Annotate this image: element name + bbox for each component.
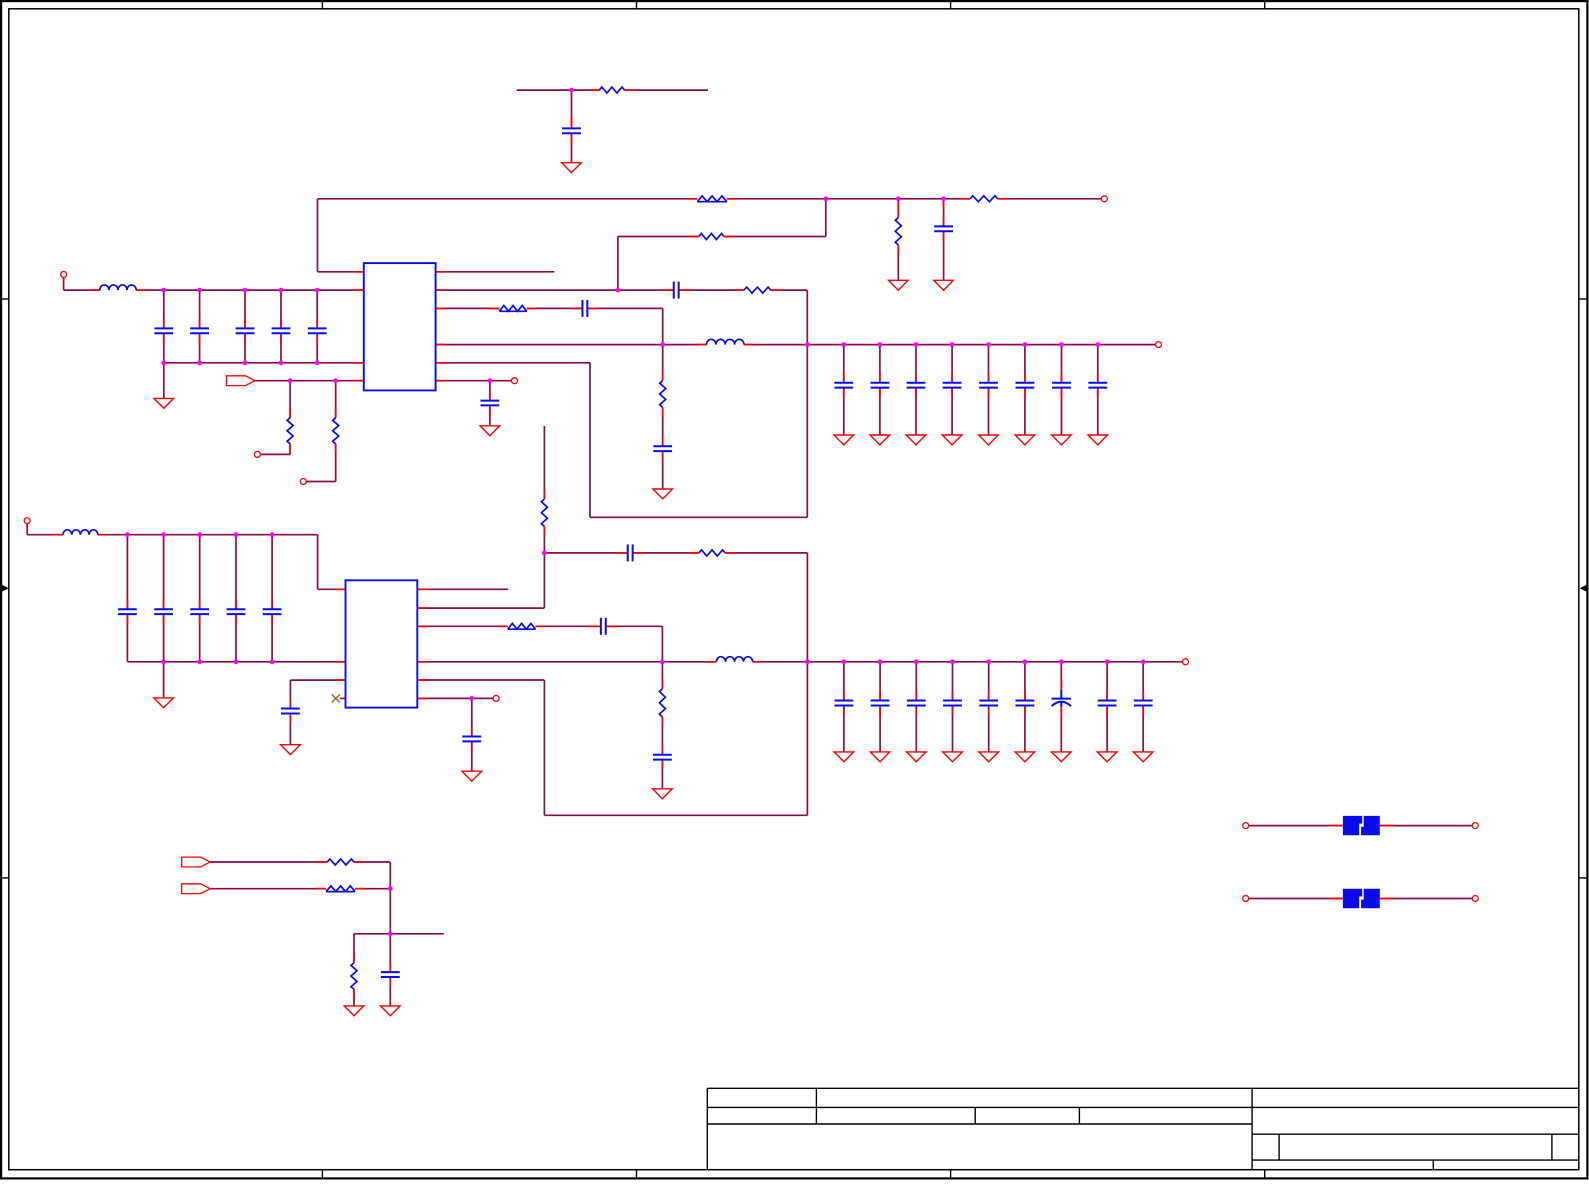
wire [951,345,953,435]
wire [318,588,346,590]
ground [870,752,890,762]
wire [318,198,1102,200]
wire [317,199,319,272]
wire [843,662,845,752]
wire [1106,662,1108,752]
capacitor C27 [590,618,617,635]
resistor R15 [318,859,364,865]
capacitor C29 [462,727,481,751]
ground [889,280,909,290]
wire [543,553,545,608]
ground [979,435,999,445]
resistor R3 [961,196,1008,202]
wire [662,345,664,489]
wire [843,345,845,435]
capacitor C12 [834,373,853,397]
resistor R4 [689,234,733,240]
capacitor C35 [1016,691,1035,715]
wire [64,289,364,291]
ground [943,752,963,762]
capacitor C8 [481,391,500,415]
resistor R8 [735,287,781,293]
junction [950,342,955,347]
capacitor C39 [381,963,400,987]
wire [163,662,165,698]
wire [63,277,65,290]
junction [1059,342,1064,347]
wire [199,535,201,662]
wire [418,607,545,609]
wire [354,933,444,935]
wire [436,344,1156,346]
inductor L1 [91,285,145,290]
no-connect X [332,694,340,702]
input port [182,857,210,867]
capacitor C38 [1134,691,1153,715]
capacitor C16 [979,373,998,397]
resistor R6 [287,408,293,453]
capacitor C25 [281,699,300,723]
wire [471,698,473,771]
wire [1142,662,1144,752]
junction [660,659,665,664]
wire [988,662,990,752]
capacitor C32 [907,691,926,715]
capacitor C26 [617,544,644,561]
wire [126,535,128,662]
junction [914,342,919,347]
wire [418,697,494,699]
port [493,695,499,701]
wire [316,290,318,363]
wire [1380,825,1473,827]
port [24,518,30,524]
ground [653,789,673,799]
inductor L3 [54,530,107,535]
ground [1015,752,1035,762]
junction [279,288,284,293]
port [1156,342,1162,348]
wire [879,345,881,435]
junction [270,532,275,537]
capacitor C2 [934,217,953,241]
junction [1105,659,1110,664]
ground [653,489,673,499]
ground [1052,435,1072,445]
wire [271,535,273,662]
wire [897,199,899,280]
resistor R1 [590,87,634,93]
junction [1023,659,1028,664]
wire [389,862,391,934]
capacitor C19 [1088,373,1107,397]
wire [436,362,591,364]
port [1183,659,1189,665]
wire [353,934,355,1006]
inductor L2 [698,339,754,344]
junction [1141,659,1146,664]
capacitor C37 [1098,691,1117,715]
resistor R12 [689,550,734,556]
wire [289,381,291,455]
wire [1249,898,1343,900]
wire [209,888,391,890]
wire [806,290,808,517]
wire [590,516,807,518]
capacitor C14 [907,373,926,397]
ground [906,435,926,445]
wire [943,199,945,280]
wire [127,661,345,663]
junction [569,88,574,93]
junction [288,378,293,383]
filter FL2 [1343,889,1380,908]
ground [1088,435,1108,445]
wire [27,534,317,536]
capacitor C11 [653,437,672,461]
ground [942,435,962,445]
ground [834,752,854,762]
wire [244,290,246,363]
capacitor C22 [190,600,209,624]
capacitor C24 [263,600,282,624]
ground [462,771,482,781]
junction [842,659,847,664]
junction [234,659,239,664]
capacitor C33 [943,691,962,715]
resistor R7 [333,408,339,453]
port [1243,823,1249,829]
port [61,272,67,278]
ground [934,280,954,290]
junction [197,659,202,664]
wire [1249,825,1343,827]
junction [1059,659,1064,664]
wire [318,271,364,273]
wire [163,363,165,399]
wire [517,89,708,91]
filter FL1 [1343,816,1380,835]
port [512,378,518,384]
ground [281,745,301,755]
ground [1097,752,1117,762]
junction [841,342,846,347]
junction [161,360,166,365]
port [1472,823,1478,829]
ground [834,435,854,445]
ground [1052,752,1072,762]
wire [163,290,165,363]
ground [154,698,174,708]
capacitor C28 [653,745,672,769]
wire [436,307,663,309]
wire [436,380,512,382]
junction [986,342,991,347]
resistor R10 [660,371,666,417]
junction [986,659,991,664]
junction [914,659,919,664]
junction [542,551,547,556]
wire [825,199,827,237]
capacitor C1 [562,119,581,143]
wire [255,380,364,382]
junction [950,659,955,664]
capacitor C36 (polarized) [1052,679,1071,717]
resistor R11 [541,490,547,537]
junction [315,288,320,293]
wire [1097,345,1099,435]
resistor R17 [351,953,357,999]
wire [335,381,337,482]
junction [161,659,166,664]
capacitor C6 [272,319,291,343]
wire [1024,662,1026,752]
junction [941,196,946,201]
resistor R14 [659,679,665,726]
junction [878,342,883,347]
wire [661,662,663,789]
wire [1024,345,1026,435]
wire [617,237,619,291]
ground [381,1006,401,1016]
junction [315,360,320,365]
capacitor C3 [154,319,173,343]
junction [823,196,828,201]
capacitor C7 [308,319,327,343]
capacitor C30 [835,691,854,715]
title block [707,1088,1579,1169]
ground [480,426,500,436]
wire [306,481,336,483]
wire [543,426,545,553]
wire [199,290,201,363]
IC U1 [364,263,436,390]
capacitor C15 [943,373,962,397]
junction [279,360,284,365]
wire [1380,898,1473,900]
junction [270,659,275,664]
inductor L4 [707,657,761,662]
wire [436,271,555,273]
ground [562,163,582,173]
junction [805,342,810,347]
wire [235,535,237,662]
resistor R13 [498,623,545,629]
capacitor C31 [871,691,890,715]
ground [1015,435,1035,445]
wire [289,680,291,744]
resistor R16 [317,886,365,892]
capacitor C20 [118,600,137,624]
port [1243,896,1249,902]
wire [418,588,509,590]
wire [544,552,807,554]
capacitor C17 [1016,373,1035,397]
capacitor C23 [227,600,246,624]
wire [571,90,573,162]
port [1101,196,1107,202]
wire [336,272,446,699]
capacitor C18 [1052,373,1071,397]
ground [907,752,927,762]
wire [290,679,345,681]
junction [1095,342,1100,347]
port [300,479,306,485]
resistor R9 [490,306,537,312]
wire [879,662,881,752]
wire [952,662,954,752]
wire [988,345,990,435]
wire [661,626,663,662]
wire [915,662,917,752]
junction [125,532,130,537]
ground [870,435,890,445]
input port [182,884,210,894]
ground [1133,752,1153,762]
ground [979,752,999,762]
port [1472,896,1478,902]
junction [660,342,665,347]
wire [618,236,826,238]
IC U2 [346,580,418,707]
ground [154,398,174,408]
junction [488,378,493,383]
junction [234,532,239,537]
junction [197,288,202,293]
wire [209,861,391,863]
resistor R5 [895,208,901,255]
capacitor C10 [571,300,598,317]
capacitor C4 [190,319,209,343]
wire [544,814,807,816]
wire [389,934,391,1006]
junction [896,196,901,201]
wire [806,553,808,815]
wire [260,453,290,455]
junction [161,532,166,537]
wire [489,381,491,426]
wire [915,345,917,435]
junction [243,360,248,365]
wire [26,523,28,534]
junction [469,696,474,701]
wire [27,202,1393,899]
wire [543,680,545,815]
wire [436,289,808,291]
junction [878,659,883,664]
wire [280,290,282,363]
capacitor C13 [871,373,890,397]
port [254,451,260,457]
wire [1061,345,1063,435]
junction [388,931,393,936]
wire [1060,662,1062,752]
junction [805,659,810,664]
capacitor C5 [236,319,255,343]
wire [317,535,319,590]
junction [1023,342,1028,347]
resistor R2 [688,196,737,202]
junction [197,532,202,537]
wire [418,661,1183,663]
wire [589,363,591,518]
wire [418,679,545,681]
junction [243,288,248,293]
junction [161,288,166,293]
wire [662,308,664,344]
junction [333,378,338,383]
ground [344,1006,364,1016]
capacitor C21 [154,600,173,624]
input port [227,376,255,386]
capacitor C34 [979,691,998,715]
junction [616,288,621,293]
wire [163,535,165,662]
junction [388,886,393,891]
capacitor C9 [663,282,690,299]
wire [164,362,364,364]
wire [418,625,663,627]
junction [197,360,202,365]
